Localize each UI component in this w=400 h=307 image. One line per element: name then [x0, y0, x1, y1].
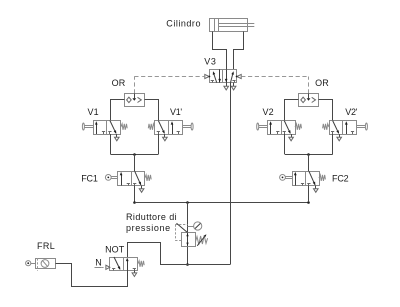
svg-text:FC2: FC2: [332, 174, 349, 184]
regulator pilot dashed box: [175, 224, 187, 240]
wire V2 output to right OR left input: [285, 100, 299, 121]
wire V3 supply riser: [230, 83, 232, 265]
valve FC1: [105, 171, 151, 192]
svg-text:V2: V2: [263, 107, 275, 117]
svg-text:V1: V1: [88, 107, 100, 117]
wire FRL to NOT supply: [56, 264, 128, 287]
junction FC1 corner: [133, 201, 136, 204]
wire FC1 to reduced pressure line: [134, 186, 136, 203]
wire FC2 to reduced pressure line: [308, 186, 310, 203]
svg-text:FRL: FRL: [37, 241, 55, 251]
service unit FRL: [36, 258, 56, 270]
pilot line right OR to V3: [241, 77, 308, 94]
label leader line: [177, 223, 188, 232]
svg-text:N: N: [95, 258, 102, 268]
svg-text:NOT: NOT: [105, 245, 125, 255]
pressure regulator body: [182, 233, 196, 247]
svg-text:FC1: FC1: [81, 174, 98, 184]
svg-text:Cilindro: Cilindro: [166, 19, 201, 29]
valve V1: [82, 121, 127, 141]
V3 right pilot: [236, 74, 241, 78]
wire V1 output to OR left input: [111, 100, 125, 121]
junction right bus: [307, 153, 310, 156]
pressure gauge: [188, 222, 202, 230]
svg-text:OR: OR: [112, 78, 126, 88]
shuttle valve OR left: [125, 93, 145, 106]
svg-text:V2': V2': [345, 107, 358, 117]
valve V2: [257, 121, 302, 141]
wire cylinder rod-end to V3 port 2: [234, 32, 244, 70]
wire right bus to FC2: [308, 154, 310, 171]
svg-text:V3: V3: [204, 57, 216, 67]
svg-text:OR: OR: [315, 78, 329, 88]
svg-text:V1': V1': [170, 107, 183, 117]
valve V2-prime: [323, 121, 368, 141]
junction left bus: [133, 153, 136, 156]
shuttle valve OR right: [299, 93, 319, 106]
wire left bus to FC1: [134, 154, 136, 171]
cylinder Cilindro: [210, 18, 255, 32]
wire reduced pressure line: [135, 202, 309, 204]
valve NOT: [106, 257, 144, 271]
V3 exhaust port 3: [231, 83, 236, 90]
svg-text:Riduttore di: Riduttore di: [126, 212, 177, 222]
wire V2-prime output to right OR right input: [319, 100, 333, 121]
valve V3 body: [210, 69, 237, 82]
wire V1 V1-prime supply bus: [111, 134, 159, 155]
V3 exhaust port 5: [224, 83, 229, 90]
junction regulator tap: [186, 263, 189, 266]
svg-text:pressione: pressione: [126, 223, 171, 233]
NOT exhaust: [132, 271, 137, 277]
air source: [26, 261, 35, 266]
wire NOT output to supply header: [128, 243, 231, 265]
pressure regulator riser: [187, 202, 189, 264]
valve FC2: [280, 171, 326, 192]
pilot line left OR to V3: [134, 77, 205, 94]
junction FC2 corner: [307, 201, 310, 204]
valve V1-prime: [148, 121, 193, 141]
wire V2 V2-prime supply bus: [285, 134, 333, 155]
wire cylinder cap-end to V3 port 4: [213, 32, 227, 70]
junction regulator output: [186, 201, 189, 204]
wire V1-prime output to OR right input: [145, 100, 159, 121]
V3 left pilot: [205, 74, 211, 78]
regulator adjustment spring: [195, 234, 207, 246]
